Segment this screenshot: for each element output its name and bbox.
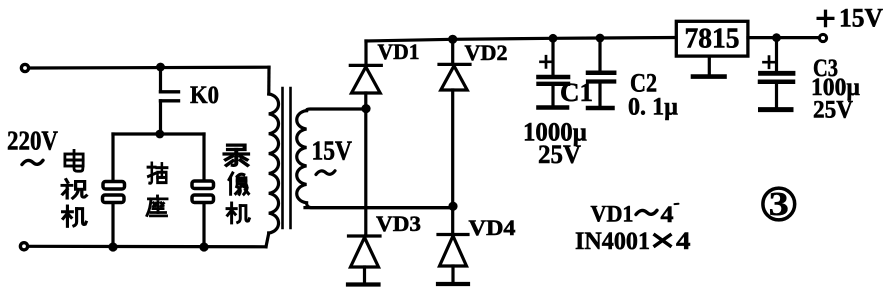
svg-text:220V: 220V — [7, 126, 58, 156]
svg-text:4: 4 — [661, 202, 675, 227]
svg-text:VD2: VD2 — [465, 40, 508, 65]
svg-text:15V: 15V — [312, 136, 353, 166]
svg-text:VD4: VD4 — [469, 215, 516, 240]
svg-text:4: 4 — [676, 226, 691, 255]
svg-text:15V: 15V — [839, 3, 883, 32]
svg-text:7815: 7815 — [685, 24, 740, 55]
svg-text:25V: 25V — [538, 140, 581, 169]
svg-text:0. 1µ: 0. 1µ — [628, 94, 678, 121]
svg-text:VD1: VD1 — [591, 202, 634, 227]
svg-text:IN4001: IN4001 — [575, 226, 650, 255]
svg-text:25V: 25V — [813, 97, 853, 124]
svg-text:VD1: VD1 — [378, 39, 420, 64]
svg-text:3: 3 — [769, 186, 789, 223]
svg-text:VD3: VD3 — [376, 211, 421, 236]
svg-text:K0: K0 — [190, 82, 219, 109]
svg-text:C1: C1 — [560, 78, 593, 107]
